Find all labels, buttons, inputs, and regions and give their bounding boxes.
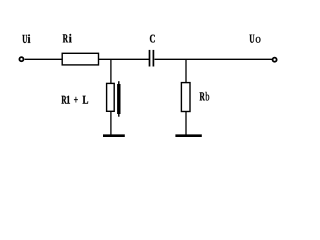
ground (left) (103, 134, 125, 137)
label Rb (200, 92, 205, 100)
wire: R1+L box to ground (110, 111, 112, 135)
input terminal Ui (open circle) (19, 57, 23, 61)
electrode bar beside R1+L box (thick bar with thin tips) (118, 81, 120, 117)
label Ui (22, 34, 30, 43)
ground (right) (175, 134, 201, 137)
wire: Rb to ground (185, 112, 187, 136)
wire: capacitor C to output terminal (155, 58, 273, 60)
label Uo (250, 35, 255, 43)
wire: resistor Ri to capacitor C (99, 58, 150, 60)
resistor Rb (181, 83, 190, 112)
label R1 + L (62, 96, 89, 104)
output terminal Uo (open circle) (273, 58, 277, 62)
resistor R1+L (series branch box) (107, 83, 115, 111)
wire: main wire down to Rb (185, 59, 187, 82)
label C (150, 35, 155, 43)
wire: main wire down to R1+L branch (110, 59, 112, 83)
label Ri (63, 34, 72, 42)
capacitor C left plate (149, 50, 151, 67)
wire: input terminal to resistor Ri (25, 58, 63, 60)
capacitor C right plate (152, 50, 154, 67)
resistor Ri (62, 53, 98, 65)
